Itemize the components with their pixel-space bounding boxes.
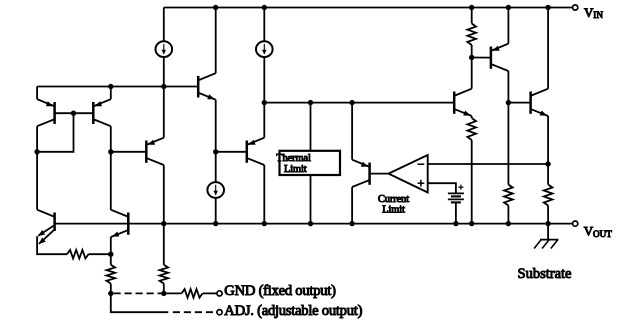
transistor Q5 xyxy=(146,138,164,165)
wire ADJ left drop xyxy=(111,293,169,312)
transistor Q9 xyxy=(111,210,129,237)
wire I2 to Q4 emitter xyxy=(263,103,265,138)
wire Q5 collector drop xyxy=(163,165,165,224)
wire Q6 base xyxy=(472,57,490,59)
wire R6 bottom lead xyxy=(471,140,473,224)
wire Q1-Q2 base tie xyxy=(55,112,94,114)
wire R1 right lead xyxy=(89,253,111,255)
node rail-R5 junction xyxy=(469,5,474,10)
wire Q6 emitter drop xyxy=(507,8,509,44)
label substrate xyxy=(518,266,572,282)
wire Q2 collector drop xyxy=(110,126,112,210)
node left net at Q2 emitter xyxy=(108,84,113,89)
resistor R8 xyxy=(544,185,553,206)
wire thermal limit bottom lead xyxy=(310,175,312,224)
transistor Q10 xyxy=(454,89,472,116)
wire Q3 emitter drop xyxy=(215,100,217,152)
node R6-output line junction xyxy=(469,221,474,226)
wire thermal limit top lead xyxy=(310,103,312,151)
svg-text:ADJ. (adjustable output): ADJ. (adjustable output) xyxy=(224,303,362,319)
wire I1 to Q5 emitter xyxy=(163,87,165,138)
wire V_IN rail xyxy=(164,7,573,9)
label U1 plus input xyxy=(418,180,425,187)
wire base tie to collector node xyxy=(37,113,73,152)
block thermal limit xyxy=(280,151,341,175)
wire node to R7 xyxy=(507,103,509,185)
node Q2 collector junction xyxy=(108,149,113,154)
label U1 minus input xyxy=(418,163,425,165)
wire R4 left lead xyxy=(164,292,182,294)
current source I2 xyxy=(256,41,273,57)
node Q3 emitter junction xyxy=(213,149,218,154)
wire node to Q4 base xyxy=(216,151,247,153)
wire R5 bottom lead xyxy=(471,45,473,58)
node middle net at Q7 xyxy=(349,100,354,105)
node thermal limit-output junction xyxy=(308,221,313,226)
wire Q8 emitters drop xyxy=(37,236,67,254)
terminal GND xyxy=(217,291,222,296)
node rail-Q3 junction xyxy=(213,5,218,10)
node rail-Q6 junction xyxy=(506,5,511,10)
node rail-I2 junction xyxy=(262,5,267,10)
node Q5-output line junction xyxy=(161,221,166,226)
wire V1 bottom lead xyxy=(455,202,457,223)
wire Q1 collector drop xyxy=(36,126,38,210)
wire I1 top lead xyxy=(163,8,165,42)
transistor Q3 xyxy=(198,73,216,100)
wire Q7 emitter drop xyxy=(351,103,353,160)
wire Q9 emitter drop xyxy=(110,237,112,254)
resistor R5 xyxy=(467,24,476,46)
resistor R6 xyxy=(467,118,476,140)
wire Q10 emitter to R6 xyxy=(471,116,473,118)
svg-text:IN: IN xyxy=(593,10,603,20)
wire R3 top lead xyxy=(163,224,165,265)
wire ADJ dashed link xyxy=(173,311,215,313)
wire U1 minus input net xyxy=(428,163,548,165)
wire R2 bottom lead xyxy=(110,284,112,294)
node R8-output line junction xyxy=(545,221,550,226)
wire node to Q5 base xyxy=(111,151,147,153)
wire I3 bottom lead xyxy=(215,198,217,224)
wire U1 plus input lead xyxy=(428,183,456,193)
wire R5 top lead xyxy=(471,8,473,24)
node Q6 base junction xyxy=(469,55,474,60)
wire R2 top lead xyxy=(110,254,112,265)
node Q4-output line junction xyxy=(262,221,267,226)
label current limit xyxy=(378,194,409,216)
node I3-output line junction xyxy=(213,221,218,226)
resistor R1 xyxy=(67,250,89,259)
wire left top net xyxy=(37,86,198,88)
label thermal limit xyxy=(276,153,311,175)
node middle net at I2 xyxy=(262,100,267,105)
wire Q4 collector drop xyxy=(263,165,265,224)
node Q1 collector junction xyxy=(34,149,39,154)
wire R8 bottom lead xyxy=(547,206,549,224)
node V1-output line junction xyxy=(453,221,458,226)
label ADJ adjustable output xyxy=(224,303,362,319)
transistor Q1 xyxy=(37,99,55,126)
wire Q2 emitter rise xyxy=(110,87,112,100)
node R3-GND net junction xyxy=(161,291,166,296)
label V1 plus sign xyxy=(458,185,463,190)
node left net at I1 xyxy=(161,84,166,89)
wire GND dashed link xyxy=(114,292,162,294)
node Q6 collector junction xyxy=(506,100,511,105)
wire Q6 collector drop xyxy=(507,71,509,103)
transistor Q4 xyxy=(247,138,264,165)
svg-text:OUT: OUT xyxy=(593,229,612,239)
node middle net at thermal limit xyxy=(308,100,313,105)
node R7-output line junction xyxy=(506,221,511,226)
wire Q7 base to op-amp xyxy=(371,173,389,175)
svg-text:Thermal: Thermal xyxy=(276,153,311,164)
wire Q1 emitter drop xyxy=(36,87,38,100)
resistor R2 xyxy=(107,265,116,284)
label V_OUT xyxy=(584,224,613,239)
terminal V_OUT xyxy=(573,221,578,226)
terminal V_IN xyxy=(573,5,578,10)
resistor R3 xyxy=(160,265,169,284)
wire output line xyxy=(55,223,573,225)
wire Q6 collector to Q11 base xyxy=(508,102,530,104)
svg-text:Limit: Limit xyxy=(284,164,307,175)
transistor Q7 xyxy=(352,160,370,187)
emitter 2 of Q8 xyxy=(39,230,54,244)
node R2-GND net junction xyxy=(108,291,113,296)
wire node to Q10 collector xyxy=(471,58,473,89)
wire I3 top lead xyxy=(215,152,217,182)
emitter 1 of Q8 xyxy=(38,226,54,237)
current source I3 xyxy=(207,182,224,198)
wire R7 bottom lead xyxy=(507,206,509,224)
resistor R4 xyxy=(182,289,203,298)
node Q7-output line junction xyxy=(349,221,354,226)
wire Q11 collector rise xyxy=(547,8,549,89)
current source I1 xyxy=(156,41,173,57)
node minus input at Q11 emitter xyxy=(545,161,550,166)
wire Q7 collector drop xyxy=(351,187,353,224)
transistor Q2 xyxy=(93,99,111,126)
transistor Q11 xyxy=(531,89,549,116)
op-amp U1 xyxy=(389,155,428,193)
label V_IN xyxy=(584,5,603,20)
label GND fixed output xyxy=(224,283,336,299)
wire I1 bottom lead xyxy=(163,57,165,86)
svg-text:GND (fixed output): GND (fixed output) xyxy=(224,283,336,299)
wire I2 top lead xyxy=(263,8,265,42)
wire R3 bottom lead xyxy=(163,284,165,294)
wire node to R8 xyxy=(547,164,549,185)
wire I2 bottom lead xyxy=(263,57,265,102)
svg-text:Limit: Limit xyxy=(382,204,405,215)
battery V1 reference xyxy=(448,193,464,202)
transistor Q8 xyxy=(37,210,55,231)
svg-text:Substrate: Substrate xyxy=(518,266,572,282)
wire R4 right lead xyxy=(203,292,217,294)
wire Q3 collector rise xyxy=(215,8,217,74)
node rail-Q11 junction xyxy=(545,5,550,10)
terminal ADJ xyxy=(217,310,222,315)
wire substrate lead xyxy=(547,224,549,240)
node Q8-Q9 emitter junction xyxy=(108,252,113,257)
wire Q11 emitter drop xyxy=(547,116,549,164)
transistor Q6 xyxy=(491,44,509,71)
wire middle net xyxy=(264,102,454,104)
node Q1-Q2 base junction xyxy=(71,111,76,116)
svg-text:Current: Current xyxy=(378,194,409,205)
resistor R7 xyxy=(504,185,513,206)
ground substrate xyxy=(534,240,558,249)
